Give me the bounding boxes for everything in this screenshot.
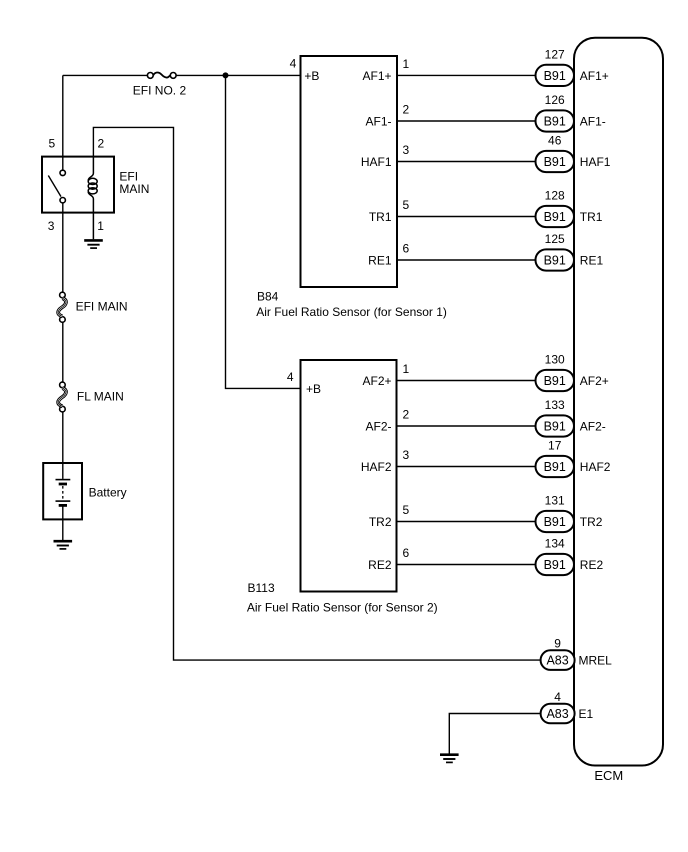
svg-text:B91: B91: [544, 515, 566, 529]
svg-text:B91: B91: [544, 155, 566, 169]
svg-text:HAF1: HAF1: [580, 155, 611, 169]
svg-text:4: 4: [287, 370, 294, 384]
svg-text:B84: B84: [257, 290, 279, 304]
svg-text:6: 6: [403, 241, 410, 255]
svg-text:EFI MAIN: EFI MAIN: [76, 300, 128, 314]
svg-text:TR2: TR2: [369, 515, 392, 529]
svg-text:AF2+: AF2+: [362, 374, 391, 388]
svg-text:TR2: TR2: [580, 515, 603, 529]
svg-text:MAIN: MAIN: [119, 182, 149, 196]
svg-text:+B: +B: [304, 69, 319, 83]
svg-text:46: 46: [548, 134, 562, 148]
svg-text:2: 2: [98, 137, 105, 151]
svg-text:TR1: TR1: [369, 210, 392, 224]
svg-text:B91: B91: [544, 420, 566, 434]
svg-text:5: 5: [403, 503, 410, 517]
svg-text:17: 17: [548, 439, 562, 453]
svg-text:AF2-: AF2-: [365, 420, 391, 434]
svg-text:RE2: RE2: [368, 558, 392, 572]
svg-text:2: 2: [403, 407, 410, 421]
svg-text:+B: +B: [306, 382, 321, 396]
svg-text:1: 1: [97, 219, 104, 233]
svg-text:AF2-: AF2-: [580, 420, 606, 434]
svg-text:134: 134: [545, 537, 565, 551]
svg-text:B91: B91: [544, 254, 566, 268]
svg-text:AF2+: AF2+: [580, 374, 609, 388]
svg-text:FL MAIN: FL MAIN: [77, 390, 124, 404]
svg-text:HAF2: HAF2: [361, 460, 392, 474]
svg-text:9: 9: [554, 636, 561, 650]
svg-text:ECM: ECM: [594, 768, 623, 783]
svg-text:2: 2: [403, 102, 410, 116]
svg-text:4: 4: [290, 57, 297, 71]
svg-text:B91: B91: [544, 69, 566, 83]
svg-text:RE1: RE1: [580, 254, 604, 268]
svg-text:B91: B91: [544, 210, 566, 224]
svg-text:128: 128: [545, 189, 565, 203]
svg-text:1: 1: [403, 362, 410, 376]
svg-text:B91: B91: [544, 558, 566, 572]
svg-text:MREL: MREL: [579, 654, 613, 668]
svg-text:130: 130: [545, 353, 565, 367]
svg-text:TR1: TR1: [580, 210, 603, 224]
svg-text:Air Fuel Ratio Sensor (for Sen: Air Fuel Ratio Sensor (for Sensor 2): [247, 601, 438, 615]
svg-text:EFI NO. 2: EFI NO. 2: [133, 84, 187, 98]
svg-text:5: 5: [48, 137, 55, 151]
svg-text:B113: B113: [248, 581, 275, 595]
svg-text:5: 5: [403, 198, 410, 212]
svg-text:RE2: RE2: [580, 558, 604, 572]
svg-text:AF1-: AF1-: [365, 115, 391, 129]
svg-text:AF1-: AF1-: [580, 115, 606, 129]
svg-text:E1: E1: [579, 707, 594, 721]
svg-text:AF1+: AF1+: [580, 69, 609, 83]
svg-text:1: 1: [403, 57, 410, 71]
svg-text:B91: B91: [544, 460, 566, 474]
svg-text:3: 3: [48, 219, 55, 233]
svg-text:3: 3: [403, 143, 410, 157]
svg-text:126: 126: [545, 93, 565, 107]
svg-text:3: 3: [403, 448, 410, 462]
svg-text:Air Fuel Ratio Sensor (for Sen: Air Fuel Ratio Sensor (for Sensor 1): [256, 305, 447, 319]
svg-text:AF1+: AF1+: [362, 69, 391, 83]
svg-text:127: 127: [545, 47, 565, 61]
svg-text:RE1: RE1: [368, 254, 392, 268]
svg-text:6: 6: [403, 546, 410, 560]
svg-text:B91: B91: [544, 374, 566, 388]
svg-text:133: 133: [545, 398, 565, 412]
svg-text:HAF2: HAF2: [580, 460, 611, 474]
svg-text:A83: A83: [546, 654, 568, 668]
svg-text:4: 4: [554, 690, 561, 704]
svg-text:131: 131: [545, 494, 565, 508]
svg-text:HAF1: HAF1: [361, 155, 392, 169]
svg-text:A83: A83: [546, 707, 568, 721]
svg-text:125: 125: [545, 232, 565, 246]
svg-text:Battery: Battery: [89, 485, 127, 499]
svg-text:B91: B91: [544, 115, 566, 129]
